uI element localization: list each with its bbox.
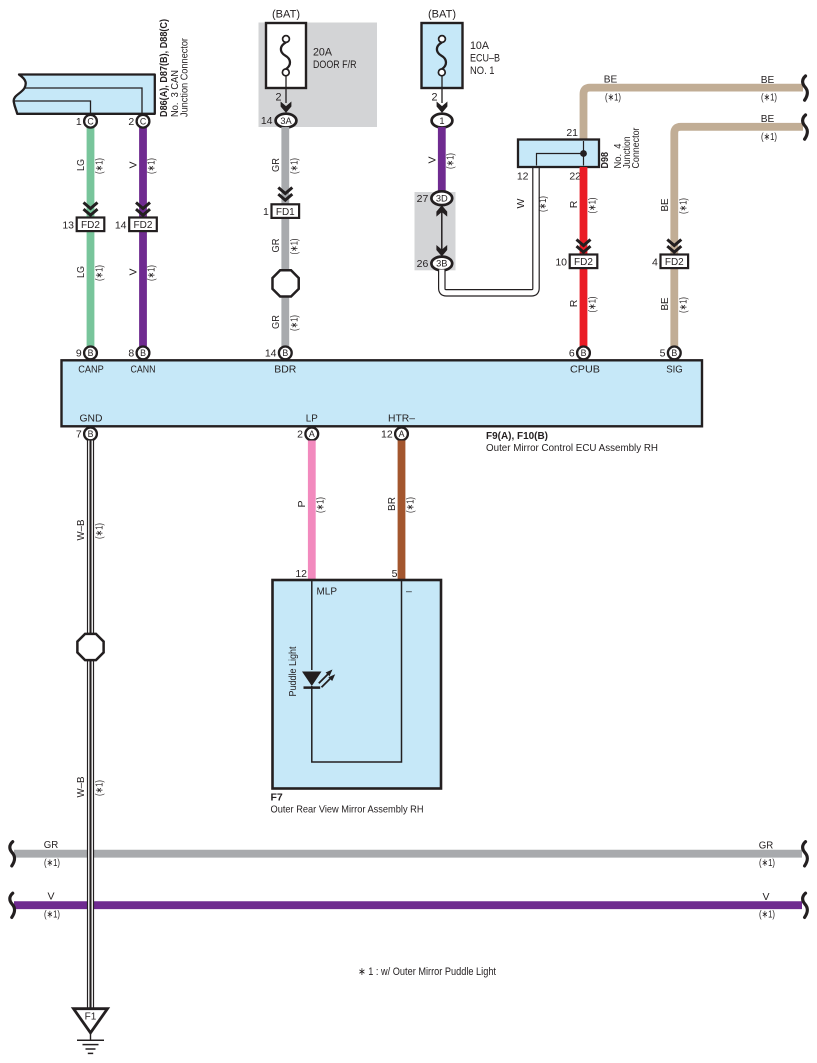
- break symbol GR bus left: [10, 842, 15, 866]
- svg-text:V: V: [128, 161, 140, 168]
- svg-text:(∗1): (∗1): [44, 909, 60, 921]
- svg-text:(∗1): (∗1): [94, 265, 106, 281]
- break symbol BE bus1: [803, 76, 808, 100]
- ground symbol F1: [74, 1009, 108, 1033]
- svg-text:BR: BR: [386, 497, 398, 511]
- svg-text:C: C: [87, 116, 94, 126]
- D98 internal wire to pin 12: [537, 154, 584, 166]
- svg-text:W: W: [515, 198, 527, 208]
- svg-text:(∗1): (∗1): [677, 297, 689, 313]
- svg-text:2: 2: [275, 92, 281, 104]
- junction connector D98 No.4: [518, 140, 599, 168]
- svg-text:12: 12: [295, 568, 307, 580]
- svg-text:CANN: CANN: [131, 363, 156, 375]
- D98 internal wire pin21 to pin22: [583, 141, 585, 166]
- svg-text:R: R: [568, 299, 580, 307]
- svg-text:Outer Rear View Mirror Assembl: Outer Rear View Mirror Assembly RH: [271, 804, 424, 816]
- svg-text:(∗1): (∗1): [587, 198, 599, 214]
- svg-text:FD2: FD2: [574, 257, 593, 268]
- fuse 20A element symbol: [281, 42, 290, 69]
- svg-text:V: V: [427, 156, 439, 163]
- svg-text:10: 10: [555, 256, 567, 268]
- svg-text:LG: LG: [75, 266, 87, 278]
- svg-text:SIG: SIG: [666, 363, 683, 375]
- svg-text:GR: GR: [759, 840, 774, 852]
- svg-text:LP: LP: [306, 412, 318, 424]
- svg-text:(∗1): (∗1): [761, 131, 777, 143]
- svg-text:(∗1): (∗1): [94, 780, 106, 796]
- ECU pin 12 A: [395, 428, 408, 441]
- arrow link between 3D and 3B: [441, 212, 443, 250]
- svg-text:V: V: [762, 891, 769, 903]
- svg-text:3A: 3A: [280, 116, 292, 126]
- fuse 20A DOOR F/R box: [266, 23, 306, 88]
- F7 internal wire: [312, 581, 402, 762]
- svg-text:MLP: MLP: [317, 586, 338, 598]
- svg-text:(∗1): (∗1): [288, 239, 300, 255]
- svg-text:(∗1): (∗1): [94, 523, 106, 539]
- connector 3D pin 27: [431, 191, 452, 205]
- svg-text:3D: 3D: [436, 193, 448, 203]
- svg-text:DOOR F/R: DOOR F/R: [313, 59, 357, 71]
- svg-text:FD2: FD2: [665, 257, 684, 268]
- connector FD2 pin 13: [77, 218, 105, 232]
- svg-text:(∗1): (∗1): [145, 158, 157, 174]
- wire BR from ECU pin 12 to mirror pin 5: [398, 441, 406, 582]
- svg-text:12: 12: [517, 171, 529, 183]
- svg-text:(∗1): (∗1): [677, 198, 689, 214]
- wire W from connector 3B to D98 pin 12 (outline): [442, 166, 536, 293]
- arrow into connector 3A: [281, 102, 292, 113]
- svg-text:BDR: BDR: [274, 363, 296, 375]
- svg-text:20A: 20A: [313, 47, 333, 59]
- break symbol GR bus right: [803, 842, 808, 866]
- svg-text:10A: 10A: [470, 40, 490, 52]
- svg-text:BE: BE: [761, 113, 775, 125]
- svg-text:F7: F7: [271, 792, 283, 804]
- break symbol V bus right: [803, 893, 808, 917]
- connector FD2 pin 14: [129, 218, 157, 232]
- wire BE bus to FD2 pin 4 and ECU pin 5: [674, 127, 803, 348]
- svg-text:FD1: FD1: [276, 207, 295, 218]
- svg-text:CANP: CANP: [78, 363, 104, 375]
- svg-text:FD2: FD2: [81, 220, 100, 231]
- ECU pin 9 B: [84, 347, 97, 360]
- svg-text:5: 5: [392, 568, 398, 580]
- connector FD1 pin 1: [272, 204, 300, 218]
- svg-text:C: C: [140, 116, 147, 126]
- svg-text:GR: GR: [270, 315, 282, 329]
- svg-text:–: –: [406, 586, 412, 598]
- svg-text:W–B: W–B: [75, 520, 87, 541]
- svg-text:BE: BE: [604, 74, 618, 86]
- svg-text:(BAT): (BAT): [428, 9, 456, 21]
- svg-text:(∗1): (∗1): [759, 909, 775, 921]
- svg-text:B: B: [140, 348, 146, 358]
- svg-text:A: A: [309, 429, 315, 439]
- shield octagon on GR wire: [272, 270, 298, 296]
- svg-text:P: P: [296, 500, 308, 507]
- shield octagon on W-B wire: [77, 634, 103, 660]
- svg-text:BE: BE: [659, 199, 671, 212]
- svg-text:1: 1: [76, 116, 82, 128]
- svg-text:(∗1): (∗1): [94, 158, 106, 174]
- ECU pin 5 B: [668, 347, 681, 360]
- svg-text:(∗1): (∗1): [759, 857, 775, 869]
- svg-text:1: 1: [263, 206, 269, 218]
- svg-text:F9(A), F10(B): F9(A), F10(B): [486, 430, 548, 442]
- svg-text:ECU–B: ECU–B: [470, 53, 500, 65]
- mirror assembly F7 box: [273, 580, 442, 789]
- svg-text:D98: D98: [599, 152, 611, 169]
- svg-text:FD2: FD2: [134, 220, 153, 231]
- ECU F9(A) F10(B) Outer Mirror Control ECU Assembly RH box: [62, 360, 703, 426]
- wire V from junction connector pin 2 to ECU pin 8: [139, 127, 147, 348]
- wire V bus horizontal: [14, 901, 802, 909]
- svg-text:21: 21: [566, 127, 578, 139]
- ECU pin 6 B: [577, 347, 590, 360]
- svg-text:Connector: Connector: [630, 127, 642, 168]
- svg-text:14: 14: [115, 219, 127, 231]
- svg-text:26: 26: [417, 258, 429, 270]
- svg-text:22: 22: [569, 171, 581, 183]
- ECU pin 8 B: [137, 347, 150, 360]
- wire P from ECU pin 2 to mirror pin 12: [308, 441, 316, 582]
- svg-text:(∗1): (∗1): [444, 153, 456, 169]
- svg-text:(∗1): (∗1): [288, 158, 300, 174]
- svg-text:(∗1): (∗1): [288, 315, 300, 331]
- connector arrow into FD2 pin 10: [577, 240, 591, 246]
- svg-text:6: 6: [569, 348, 575, 360]
- svg-text:W–B: W–B: [75, 777, 87, 798]
- svg-text:F1: F1: [85, 1012, 97, 1023]
- svg-text:HTR–: HTR–: [388, 412, 415, 424]
- connector FD2 pin 10: [570, 255, 598, 269]
- svg-text:Puddle Light: Puddle Light: [287, 646, 299, 696]
- svg-text:Outer Mirror Control ECU Assem: Outer Mirror Control ECU Assembly RH: [486, 442, 658, 454]
- svg-text:(∗1): (∗1): [587, 297, 599, 313]
- wire R from D98 pin 22 to ECU pin 6: [580, 167, 588, 348]
- svg-text:(∗1): (∗1): [761, 92, 777, 104]
- svg-text:12: 12: [381, 429, 393, 441]
- connector arrow into FD1 pin 1: [278, 188, 292, 194]
- break symbol V bus left: [10, 893, 15, 917]
- svg-text:4: 4: [652, 256, 658, 268]
- ECU pin 14 B: [279, 347, 292, 360]
- svg-text:B: B: [282, 348, 288, 358]
- shaded panel around 20A DOOR F/R fuse: [259, 23, 378, 128]
- junction connector internal bus line to pin 2: [25, 88, 143, 114]
- svg-text:BE: BE: [761, 74, 775, 86]
- connector arrow into FD2 pin 14: [136, 203, 150, 209]
- svg-text:BE: BE: [659, 298, 671, 311]
- svg-text:13: 13: [62, 219, 74, 231]
- svg-text:GR: GR: [270, 158, 282, 172]
- fuse output lead pin 2: [285, 76, 287, 103]
- puddle light LED symbol: [302, 672, 322, 687]
- connector arrow into FD2 pin 13: [84, 203, 98, 209]
- svg-text:2: 2: [128, 116, 134, 128]
- svg-text:14: 14: [265, 348, 277, 360]
- svg-text:B: B: [88, 348, 94, 358]
- svg-text:9: 9: [76, 348, 82, 360]
- connector FD2 pin 4: [661, 255, 689, 269]
- svg-text:V: V: [128, 268, 140, 275]
- svg-text:14: 14: [261, 115, 273, 127]
- svg-text:R: R: [568, 200, 580, 208]
- wire BE bus to D98 pin 21: [584, 88, 804, 140]
- shaded panel around connectors 3D/3B: [415, 192, 456, 270]
- svg-text:3B: 3B: [436, 259, 447, 269]
- svg-text:(BAT): (BAT): [272, 9, 300, 21]
- svg-text:(∗1): (∗1): [605, 92, 621, 104]
- D98 junction node dot: [580, 150, 587, 157]
- connector pin 1 oval: [432, 114, 453, 128]
- svg-text:V: V: [47, 891, 54, 903]
- fuse 10A element symbol: [437, 42, 446, 69]
- svg-text:B: B: [88, 429, 94, 439]
- svg-text:(∗1): (∗1): [145, 265, 157, 281]
- svg-text:A: A: [399, 429, 405, 439]
- pin 1 C of junction connector: [84, 115, 97, 128]
- svg-text:8: 8: [128, 348, 134, 360]
- ECU pin 7 B: [84, 428, 97, 441]
- wire V from fuse connector 1 to connector 3D: [438, 127, 446, 193]
- junction connector D86(A) D87(B) D88(C) No.3 CAN: [14, 75, 155, 114]
- svg-text:LG: LG: [75, 159, 87, 171]
- svg-text:(∗1): (∗1): [315, 497, 327, 513]
- arrow into connector 1: [437, 102, 448, 113]
- connector 3A pin 14: [276, 114, 297, 128]
- junction connector internal bus line to pin 1: [14, 101, 91, 114]
- svg-text:GR: GR: [270, 238, 282, 252]
- pin 2 C of junction connector: [137, 115, 150, 128]
- svg-text:5: 5: [660, 348, 666, 360]
- svg-text:CPUB: CPUB: [570, 363, 600, 375]
- fuse 10A ECU-B NO.1 box: [422, 23, 463, 88]
- svg-text:2: 2: [297, 429, 303, 441]
- svg-text:(∗1): (∗1): [405, 497, 417, 513]
- svg-text:∗ 1 : w/ Outer Mirror Puddle L: ∗ 1 : w/ Outer Mirror Puddle Light: [358, 966, 496, 978]
- svg-text:2: 2: [431, 92, 437, 104]
- svg-text:GND: GND: [80, 412, 103, 424]
- svg-text:GR: GR: [44, 839, 59, 851]
- svg-text:7: 7: [76, 429, 82, 441]
- svg-text:NO. 1: NO. 1: [470, 65, 495, 77]
- connector 3B pin 26: [431, 257, 452, 271]
- svg-text:B: B: [671, 348, 677, 358]
- ECU pin 2 A: [305, 428, 318, 441]
- fuse output lead pin 2: [441, 76, 443, 103]
- svg-text:(∗1): (∗1): [44, 857, 60, 869]
- svg-text:1: 1: [439, 116, 444, 126]
- wire LG from junction connector pin 1 to ECU pin 9: [87, 127, 95, 348]
- wire W-B from ECU pin 7 to ground F1 (white with black stripe): [87, 441, 94, 1010]
- break symbol BE bus2: [803, 115, 808, 139]
- wire GR from connector 3A to ECU pin 14: [281, 127, 289, 348]
- svg-text:(∗1): (∗1): [537, 196, 549, 212]
- svg-text:B: B: [581, 348, 587, 358]
- svg-text:Junction Connector: Junction Connector: [179, 38, 191, 117]
- svg-text:27: 27: [417, 193, 429, 205]
- wire GR bus horizontal: [14, 850, 802, 858]
- connector arrow into FD2 pin 4: [667, 240, 681, 246]
